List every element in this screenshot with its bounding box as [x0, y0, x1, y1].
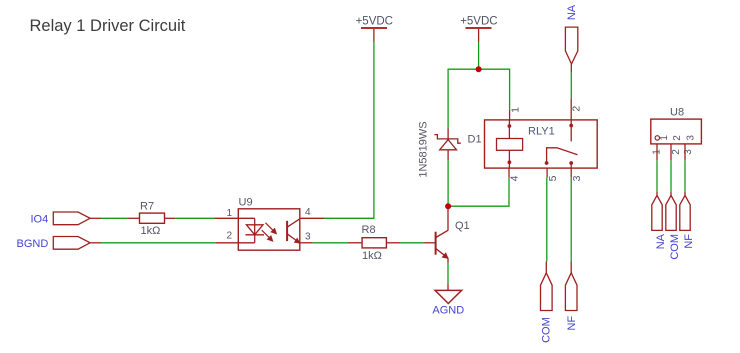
svg-text:+5VDC: +5VDC	[356, 15, 393, 27]
wire D1 to collector junction	[447, 160, 449, 206]
op-amp U9 optocoupler body	[238, 209, 299, 250]
wire junction to relay pin4	[448, 178, 509, 207]
svg-text:NF: NF	[683, 234, 695, 249]
wire relay pin3 stub	[570, 168, 572, 178]
wire IO4 pin stub	[90, 217, 101, 219]
svg-text:2: 2	[672, 135, 683, 141]
node BGND connector	[53, 237, 90, 250]
wire Q1 collector stub	[447, 206, 449, 230]
node COM tag (U8)	[666, 192, 676, 231]
svg-text:1: 1	[226, 208, 232, 219]
wire COM pin stub	[545, 262, 547, 273]
svg-text:4: 4	[305, 207, 311, 218]
node NF connector	[565, 273, 577, 311]
wire U8 pin3 net	[684, 160, 686, 191]
svg-text:1N5819WS: 1N5819WS	[418, 121, 430, 177]
ground AGND	[435, 290, 462, 303]
svg-text:U9: U9	[239, 196, 253, 208]
node junction collector	[445, 203, 451, 209]
svg-text:AGND: AGND	[432, 305, 464, 317]
resistor R7	[140, 213, 165, 223]
svg-text:4: 4	[508, 175, 520, 181]
node COM connector	[541, 273, 553, 311]
svg-text:5: 5	[547, 175, 559, 181]
svg-text:IO4: IO4	[31, 213, 49, 225]
relay RLY1	[485, 120, 598, 168]
wire NA to relay pin2	[570, 72, 572, 98]
wire U8 pin1 stub	[656, 144, 658, 160]
wire U8 pin2 stub	[670, 144, 672, 160]
svg-text:COM: COM	[541, 317, 553, 343]
wire Q1 emitter stub	[447, 259, 449, 263]
relay junction dots	[508, 124, 574, 165]
wire NA pin stub	[570, 64, 572, 72]
wire U9 pin2 stub	[216, 242, 238, 244]
svg-text:3: 3	[685, 135, 696, 141]
wire relay pin5 to COM	[546, 178, 548, 262]
wire +5VDC stub down	[478, 42, 480, 70]
wire U9 pin3 stub	[300, 242, 313, 244]
wire IO4 to R7	[101, 217, 127, 219]
wire NF pin stub	[570, 262, 572, 273]
svg-text:1: 1	[510, 107, 522, 113]
svg-text:1kΩ: 1kΩ	[362, 250, 382, 262]
svg-text:2: 2	[671, 149, 682, 155]
node NA connector top	[565, 27, 577, 64]
wire relay pin4 stub	[508, 168, 510, 178]
wire R7 right pin	[165, 217, 176, 219]
diode D1	[434, 129, 460, 161]
svg-text:R7: R7	[140, 200, 154, 212]
svg-text:1: 1	[659, 135, 670, 141]
power +5VDC (right)	[460, 15, 497, 41]
svg-text:NF: NF	[566, 316, 578, 331]
wire AGND stub	[447, 284, 449, 291]
power +5VDC (left)	[356, 15, 393, 41]
wire U9 pin4 to +5VDC	[324, 42, 374, 219]
wire R8 to Q1 base	[400, 242, 425, 244]
wire U9 pin3 to R8	[313, 242, 348, 244]
svg-text:Relay 1 Driver Circuit: Relay 1 Driver Circuit	[30, 17, 186, 35]
wire R8 left pin	[348, 242, 362, 244]
svg-text:3: 3	[305, 231, 311, 242]
node NA tag (U8)	[652, 192, 662, 231]
svg-text:1kΩ: 1kΩ	[141, 225, 161, 237]
svg-text:2: 2	[226, 230, 232, 241]
transistor Q1	[436, 230, 448, 258]
wire R8 right pin	[386, 242, 400, 244]
wire R7 left pin	[127, 217, 139, 219]
wire U8 pin1 net	[656, 160, 658, 191]
U9 light arrows	[262, 223, 276, 241]
wire top distribution	[448, 69, 510, 128]
wire relay pin2 stub	[570, 99, 572, 120]
wire U9 pin4 stub	[300, 217, 324, 219]
U9 phototransistor	[287, 219, 300, 243]
wire Q1 emitter to AGND	[447, 263, 449, 284]
svg-text:COM: COM	[669, 234, 681, 260]
svg-text:2: 2	[571, 106, 583, 112]
svg-text:Q1: Q1	[455, 220, 470, 232]
U9 internal LED	[238, 218, 264, 243]
resistor R8	[362, 238, 386, 248]
wire R7 to U9 pin1	[175, 217, 214, 219]
svg-text:R8: R8	[362, 224, 376, 236]
svg-text:BGND: BGND	[17, 238, 49, 250]
node IO4 connector	[53, 212, 90, 225]
wire U8 pin3 stub	[684, 144, 686, 160]
wire BGND to U9 pin2	[101, 242, 216, 244]
connector U8 body	[651, 119, 702, 144]
svg-text:D1: D1	[468, 133, 482, 145]
svg-text:U8: U8	[670, 107, 684, 119]
svg-text:RLY1: RLY1	[528, 126, 555, 138]
node junction top	[476, 66, 482, 72]
wire Q1 base stub	[425, 242, 436, 244]
svg-text:3: 3	[571, 175, 583, 181]
wire U8 pin2 net	[670, 160, 672, 191]
svg-text:+5VDC: +5VDC	[460, 15, 497, 27]
node NF tag (U8)	[680, 192, 690, 231]
wire relay pin3 to NF	[570, 178, 572, 262]
svg-text:NA: NA	[566, 4, 578, 20]
wire BGND pin stub	[90, 242, 101, 244]
wire relay pin5 stub	[546, 168, 548, 178]
svg-text:NA: NA	[655, 233, 667, 249]
wire U9 pin1 stub	[215, 217, 239, 219]
wire relay pin1 stub	[509, 111, 511, 120]
